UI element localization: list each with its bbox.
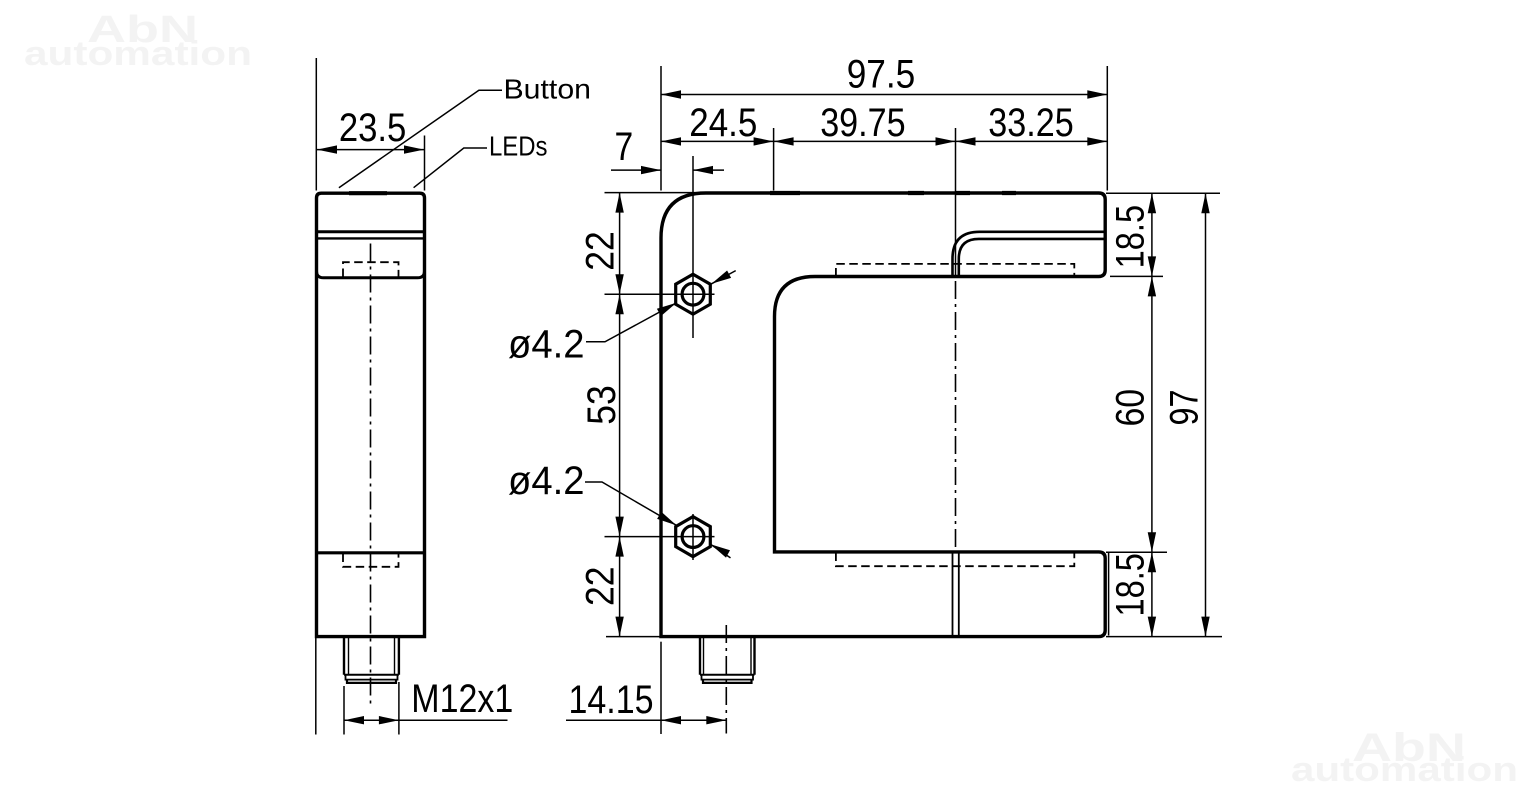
front view fork body outline (661, 193, 1105, 637)
side view lower parting line (317, 551, 425, 554)
right dimension column 18.5 / 60 / 18.5 / 97 (1106, 193, 1222, 636)
label Button with leader (339, 90, 502, 188)
svg-text:14.15: 14.15 (569, 678, 654, 722)
svg-text:ø4.2: ø4.2 (508, 323, 585, 367)
front view hidden window lower (dashed) (836, 553, 1074, 567)
label ø4.2 upper with leader (586, 271, 736, 342)
side view M12 connector (344, 637, 399, 683)
side view top edge hidden dash (349, 191, 387, 195)
dimension 14.15 (566, 642, 726, 734)
watermark AbN automation top-left (24, 9, 252, 73)
dimension 97.5 (661, 66, 1107, 191)
left dimension column 22 / 53 / 22 (605, 193, 707, 637)
front view lower arm right extension line (1108, 553, 1110, 636)
svg-text:53: 53 (580, 385, 624, 425)
svg-text:18.5: 18.5 (1109, 205, 1153, 269)
label ø4.2 lower with leader (585, 482, 731, 558)
svg-text:97.5: 97.5 (847, 52, 916, 96)
svg-text:automation: automation (24, 35, 252, 73)
side view silhouette (317, 193, 425, 636)
front view LED band outer line (953, 232, 1106, 277)
dimension 7 (611, 169, 724, 171)
side view band bottom line (317, 271, 425, 278)
side view hidden window upper (dashed) (343, 262, 399, 277)
dimension M12x1 (316, 638, 508, 735)
svg-text:39.75: 39.75 (820, 101, 905, 145)
svg-text:7: 7 (614, 125, 633, 169)
side view cap lower parting line (317, 237, 425, 239)
svg-text:22: 22 (579, 566, 623, 606)
front view LED band inner line (959, 239, 1105, 277)
chain dimensions 24.5 / 39.75 / 33.25 (661, 128, 1107, 277)
front view M12 connector (700, 637, 755, 683)
screw hole nut upper (676, 274, 711, 314)
svg-text:22: 22 (579, 231, 623, 271)
side view body outline (317, 193, 425, 636)
svg-text:Button: Button (504, 73, 592, 104)
front view lower arm seam lines (953, 553, 959, 637)
svg-text:23.5: 23.5 (339, 106, 407, 150)
svg-text:M12x1: M12x1 (411, 677, 513, 721)
svg-text:97: 97 (1163, 390, 1207, 426)
svg-text:LEDs: LEDs (489, 130, 548, 161)
svg-text:18.5: 18.5 (1109, 553, 1153, 617)
side view centerline (370, 244, 372, 707)
side view hidden window lower (dashed) (343, 554, 399, 567)
label LEDs with leader (414, 148, 487, 188)
watermark AbN automation bottom-right (1291, 726, 1518, 789)
lower hole centerlines (605, 536, 715, 538)
front view connector centerline (725, 625, 727, 734)
upper hole centerlines (605, 293, 715, 295)
svg-text:automation: automation (1291, 751, 1518, 789)
svg-text:60: 60 (1109, 389, 1153, 427)
dimension 23.5 (316, 58, 424, 191)
front view hidden window upper (dashed) (836, 264, 1074, 277)
svg-text:24.5: 24.5 (689, 101, 757, 145)
front view top edge hidden dashes (770, 191, 1016, 195)
front view slot centerline (955, 281, 957, 549)
svg-text:ø4.2: ø4.2 (508, 459, 585, 503)
screw hole nut lower (676, 517, 711, 557)
side view cap bottom line (317, 230, 425, 233)
svg-text:33.25: 33.25 (988, 101, 1073, 145)
